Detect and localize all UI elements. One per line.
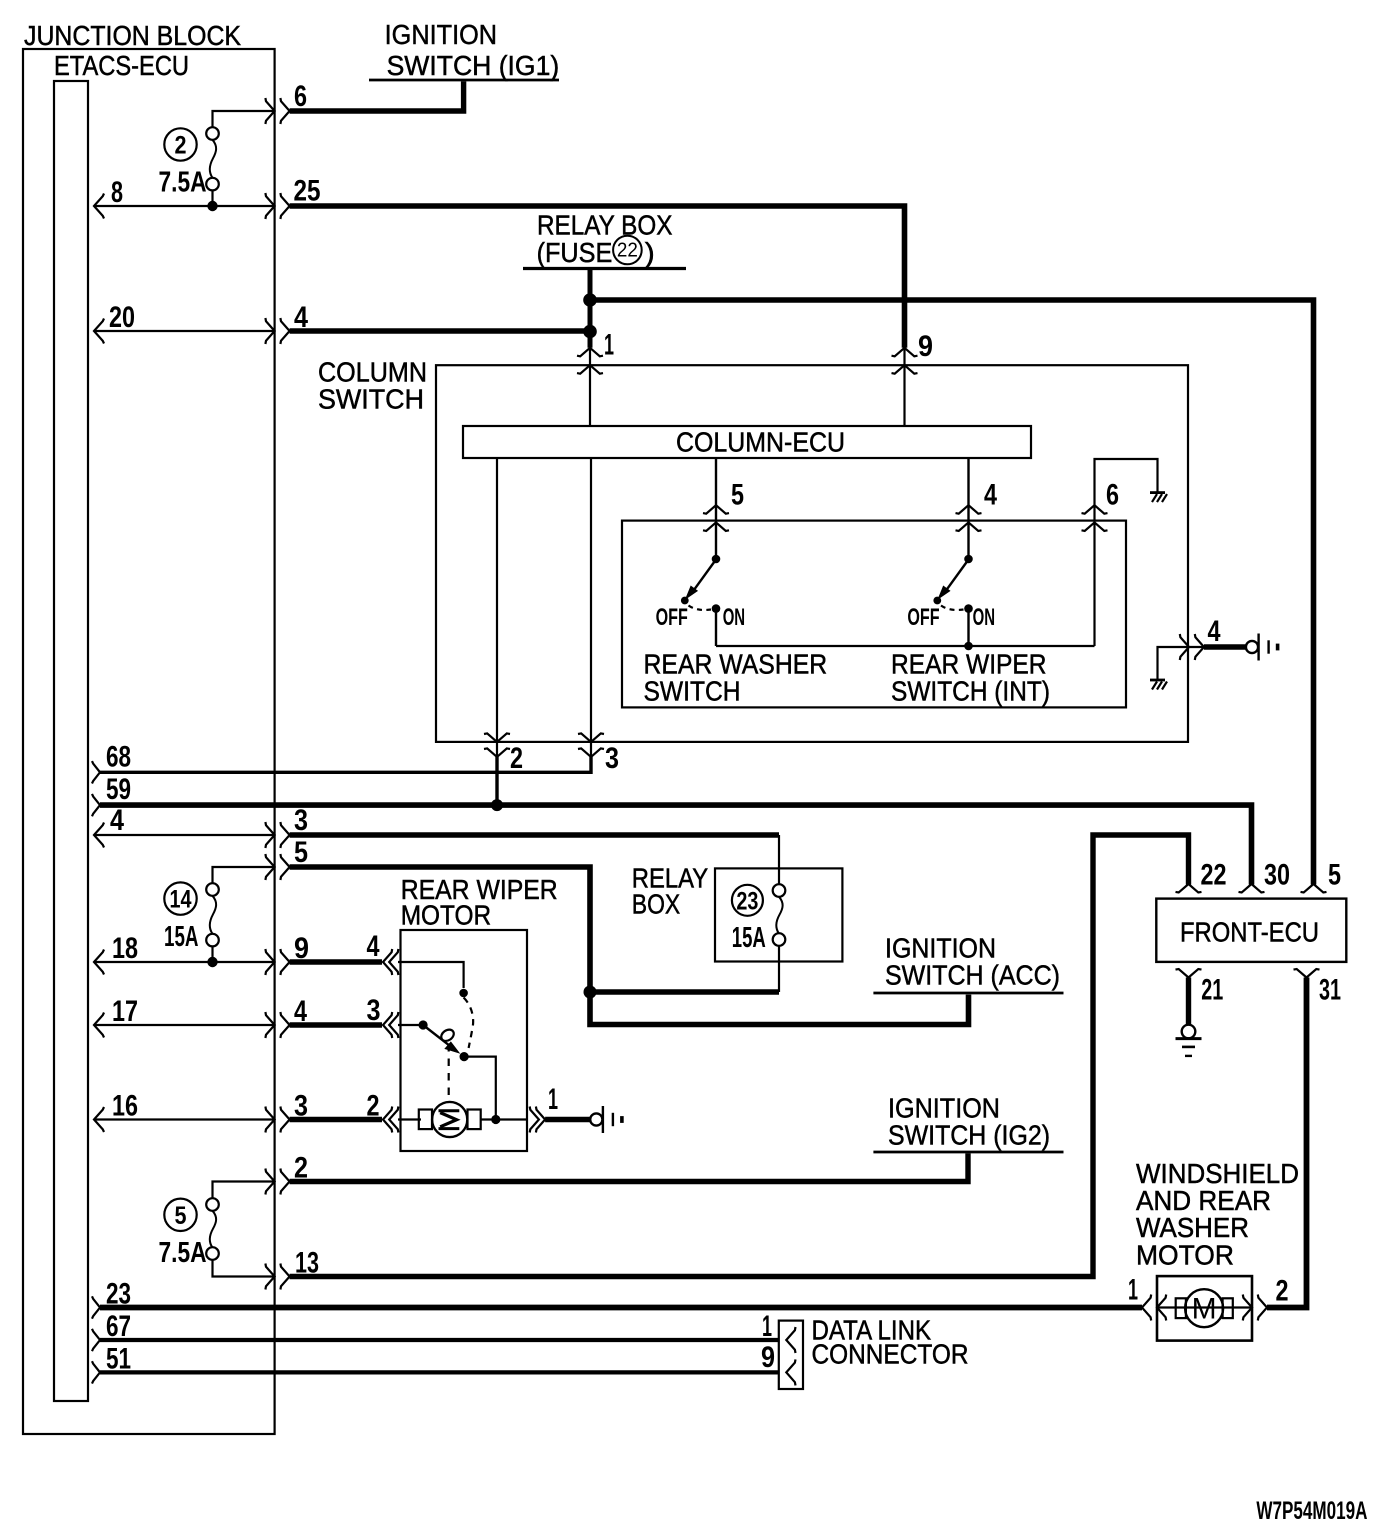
svg-text:SWITCH: SWITCH — [318, 383, 424, 414]
washer motor pin 1 chevrons — [1142, 1295, 1151, 1321]
wire pin 18 to edge — [94, 961, 274, 963]
svg-text:5: 5 — [175, 1202, 187, 1230]
svg-text:W7P54M019A: W7P54M019A — [1256, 1497, 1367, 1525]
junction dot fuse2/wire8 — [207, 201, 217, 211]
front-ecu pin 31 arrow — [1294, 969, 1320, 978]
ETACS-ECU connector strip — [54, 81, 88, 1401]
front-ecu pin 22 arrow — [1176, 884, 1202, 893]
fuse 14 — [164, 882, 196, 914]
svg-text:3: 3 — [294, 804, 308, 837]
switch common rail — [716, 645, 1095, 647]
wire 67 — [100, 1338, 779, 1342]
wire park to motor output — [464, 1057, 496, 1120]
pin 23 arrow — [92, 1296, 100, 1318]
svg-text:(FUSE: (FUSE — [537, 237, 613, 268]
svg-text:MOTOR: MOTOR — [401, 900, 492, 931]
svg-text:23: 23 — [106, 1278, 131, 1311]
wire pin 1 into column-ecu — [589, 348, 591, 426]
svg-text:23: 23 — [736, 887, 758, 915]
park lever — [423, 1025, 453, 1049]
svg-text:IGNITION: IGNITION — [385, 19, 498, 50]
wire 68 — [100, 757, 591, 772]
washer motor armature M — [1176, 1289, 1233, 1327]
wire fuse23 bottom to riser — [590, 989, 779, 994]
wire 4 inline connector chevrons — [1180, 634, 1189, 660]
wire pin 4 to edge — [94, 834, 274, 836]
svg-text:SWITCH (INT): SWITCH (INT) — [891, 675, 1050, 706]
IG2 feed bar — [873, 1151, 1063, 1154]
switch inner box — [622, 521, 1126, 708]
rear washer switch — [681, 555, 720, 646]
svg-text:7.5A: 7.5A — [159, 1237, 207, 1269]
pin 18 arrow — [94, 950, 104, 975]
svg-text:25: 25 — [294, 175, 321, 208]
wire fuse 2 top to pin 6 — [213, 111, 274, 127]
motor pin 4 chevrons — [383, 949, 392, 975]
pin 59 arrow — [92, 794, 100, 816]
junction dot wiper/rail — [964, 642, 973, 651]
svg-text:SWITCH: SWITCH — [644, 675, 741, 706]
svg-text:4: 4 — [294, 995, 307, 1028]
wire pin 21 to earth ground — [1186, 978, 1191, 1026]
svg-text:15A: 15A — [732, 922, 766, 954]
pin 17 arrow — [94, 1013, 104, 1038]
pin 8 arrow — [94, 194, 104, 219]
wire motor to pin 1 — [481, 1118, 527, 1120]
wire 3 to motor pin 2 — [290, 1117, 382, 1122]
svg-text:17: 17 — [112, 995, 138, 1028]
body ground terminal — [1246, 634, 1278, 661]
wire 51 — [100, 1370, 779, 1374]
svg-text:59: 59 — [106, 773, 131, 806]
data link connector box — [779, 1321, 803, 1389]
wire ecu pin 4 down to wiper switch — [967, 458, 969, 559]
data link pin 1 chevron — [786, 1327, 795, 1353]
body ground terminal — [590, 1106, 622, 1133]
motor armature M — [419, 1102, 481, 1137]
wire fuse 2 bottom to wire 8 — [211, 191, 213, 207]
FRONT-ECU box — [1156, 899, 1346, 962]
chassis ground below wire 4 — [1150, 680, 1167, 690]
svg-text:1: 1 — [604, 329, 614, 362]
svg-text:2: 2 — [1276, 1275, 1289, 1308]
wire 25 to column pin 9 — [290, 206, 905, 348]
junction dot pin2/59 — [491, 799, 503, 811]
wire pin 3 to park common — [398, 1024, 423, 1026]
svg-text:9: 9 — [761, 1341, 775, 1374]
wire pin 1 to body ground — [545, 1117, 590, 1122]
svg-text:51: 51 — [106, 1343, 131, 1376]
wire inside washer motor — [1157, 1306, 1252, 1308]
junction dot motor/park — [491, 1115, 500, 1124]
svg-text:68: 68 — [106, 741, 131, 774]
svg-text:): ) — [645, 237, 655, 268]
park contact lower dot — [460, 1052, 469, 1061]
park lever arrowhead — [446, 1043, 458, 1052]
svg-text:ON: ON — [973, 604, 995, 631]
svg-text:3: 3 — [605, 742, 619, 775]
svg-text:7.5A: 7.5A — [159, 167, 207, 199]
svg-text:30: 30 — [1264, 859, 1290, 892]
IG1 feed bar — [369, 79, 559, 82]
junction dot fuse22/right riser — [583, 293, 597, 307]
svg-text:4: 4 — [367, 930, 380, 963]
svg-text:15A: 15A — [164, 921, 199, 953]
wire ecu pin 3 down — [590, 458, 592, 757]
motor pin 1 chevrons — [530, 1107, 539, 1133]
wire pin 8 to edge — [94, 205, 274, 207]
svg-text:9: 9 — [294, 932, 309, 965]
pin 1 connector chevrons — [577, 348, 603, 357]
washer motor pin 2 chevrons — [1243, 1295, 1252, 1321]
wire fuse22 to right riser — [590, 300, 1314, 885]
wire pin 2 to bus 59 — [495, 757, 498, 805]
wire pin 4 to column pin 1 — [290, 328, 590, 333]
svg-text:SWITCH (ACC): SWITCH (ACC) — [885, 959, 1060, 990]
junction dot pin4 wire — [583, 325, 597, 339]
wire pin 4 inside motor — [398, 962, 464, 988]
svg-text:RELAY BOX: RELAY BOX — [537, 210, 673, 241]
junction dot fuse14/wire18 — [207, 957, 217, 967]
fuse 5 — [164, 1199, 196, 1231]
svg-text:16: 16 — [112, 1090, 138, 1123]
svg-text:18: 18 — [112, 932, 138, 965]
svg-text:2: 2 — [367, 1090, 380, 1123]
earth ground — [1176, 1025, 1202, 1056]
fuse 2 — [164, 128, 196, 160]
svg-text:3: 3 — [367, 994, 381, 1027]
svg-text:6: 6 — [1106, 478, 1119, 511]
pin 51 arrow — [92, 1361, 100, 1383]
svg-text:2: 2 — [294, 1152, 308, 1185]
rear wiper switch — [933, 555, 972, 646]
washer motor box — [1157, 1276, 1252, 1341]
wire 59 bus — [100, 805, 1252, 884]
svg-text:2: 2 — [175, 132, 187, 160]
pin 4 chevrons at switch box — [956, 505, 982, 514]
svg-text:6: 6 — [294, 80, 307, 113]
wire ecu pin 5 down to washer switch — [715, 458, 717, 559]
svg-text:3: 3 — [294, 1090, 308, 1123]
junction block outline — [23, 49, 275, 1434]
relay box fuse 23 box — [715, 868, 842, 961]
wire fuse22 down to column pin 1 — [588, 269, 593, 348]
pin 68 arrow — [92, 761, 100, 783]
wire 9 to motor pin 4 — [290, 959, 382, 964]
pin 16 arrow — [94, 1107, 104, 1132]
svg-text:1: 1 — [1128, 1274, 1138, 1307]
wire pin 6 to IG1 — [290, 81, 464, 111]
svg-text:CONNECTOR: CONNECTOR — [812, 1339, 969, 1370]
wire 3 to fuse 23 — [290, 832, 779, 837]
svg-text:FRONT-ECU: FRONT-ECU — [1180, 917, 1319, 948]
svg-text:20: 20 — [109, 301, 135, 334]
svg-text:2: 2 — [510, 742, 523, 775]
svg-text:COLUMN-ECU: COLUMN-ECU — [676, 427, 845, 458]
svg-text:4: 4 — [294, 301, 308, 334]
svg-text:1: 1 — [548, 1083, 558, 1116]
front-ecu pin 5 arrow — [1301, 884, 1327, 893]
wire 13 riser to front-ecu pin 22 — [290, 835, 1189, 1277]
wire pin 2 from IG2 — [290, 1153, 968, 1181]
relay box feed bar — [523, 267, 686, 270]
pin 5 chevrons at switch box — [703, 505, 729, 514]
rear wiper motor box — [401, 930, 528, 1151]
svg-text:9: 9 — [918, 330, 933, 363]
svg-text:22: 22 — [617, 240, 638, 262]
wire 23 — [100, 1305, 1142, 1311]
svg-text:ETACS-ECU: ETACS-ECU — [54, 50, 189, 81]
svg-text:SWITCH (IG2): SWITCH (IG2) — [888, 1119, 1050, 1150]
wire pin 20 to edge — [94, 330, 274, 332]
motor pin 2 chevrons — [383, 1107, 392, 1133]
park lever loop — [439, 1027, 456, 1043]
svg-text:21: 21 — [1201, 973, 1223, 1006]
pin 6 chevrons at switch box — [1082, 505, 1108, 514]
front-ecu pin 21 arrow — [1176, 969, 1202, 978]
svg-text:JUNCTION BLOCK: JUNCTION BLOCK — [24, 20, 241, 51]
park contact upper dot — [459, 989, 468, 998]
data link pin 9 chevron — [786, 1359, 795, 1385]
svg-text:SWITCH (IG1): SWITCH (IG1) — [387, 50, 560, 81]
pin 4 arrow — [94, 823, 104, 848]
ACC feed bar — [873, 992, 1063, 995]
svg-text:4: 4 — [1208, 615, 1221, 648]
COLUMN-ECU box — [463, 426, 1031, 458]
svg-text:OFF: OFF — [907, 604, 939, 631]
svg-text:OFF: OFF — [656, 604, 688, 631]
pin 20 arrow — [94, 319, 104, 344]
front-ecu pin 30 arrow — [1239, 884, 1265, 893]
pin 9 connector chevrons — [892, 348, 918, 357]
chassis ground pin6 — [1150, 493, 1167, 503]
junction block edge connector chevrons — [265, 98, 274, 124]
wire fuse 14 top to pin 5 — [213, 867, 274, 883]
svg-text:4: 4 — [984, 478, 997, 511]
svg-text:MOTOR: MOTOR — [1136, 1239, 1234, 1270]
wire pin 17 to edge — [94, 1024, 274, 1026]
ground wire 4 to body ground — [1158, 647, 1247, 679]
motor pin 3 chevrons — [383, 1012, 392, 1038]
svg-text:8: 8 — [111, 176, 123, 209]
svg-text:4: 4 — [110, 804, 124, 837]
svg-text:14: 14 — [170, 886, 192, 914]
pin 2 chevrons at column box bottom — [484, 733, 510, 742]
svg-text:ON: ON — [723, 604, 745, 631]
svg-text:31: 31 — [1319, 973, 1341, 1006]
wire ecu pin 2 down — [496, 458, 498, 757]
cam dashed arc — [464, 998, 474, 1049]
svg-text:22: 22 — [1201, 859, 1227, 892]
column switch box — [436, 365, 1188, 742]
svg-text:5: 5 — [1328, 859, 1341, 892]
wire pin 31 to washer motor pin 2 — [1267, 978, 1307, 1308]
fuse 23 — [732, 885, 763, 916]
svg-text:5: 5 — [294, 836, 308, 869]
svg-text:67: 67 — [106, 1310, 131, 1343]
mechanical link dashed — [448, 1044, 450, 1102]
svg-text:13: 13 — [295, 1247, 319, 1280]
park common dot — [419, 1020, 428, 1029]
wire pin 9 into column-ecu — [903, 348, 905, 426]
wire 5 riser to ACC — [290, 867, 969, 1025]
svg-text:BOX: BOX — [632, 889, 681, 920]
pin 3 chevrons at column box bottom — [578, 733, 604, 742]
wire fuse 5 bottom to pin 13 — [213, 1260, 274, 1277]
wire fuse 5 top to pin 2 — [213, 1182, 274, 1199]
pin 67 arrow — [92, 1329, 100, 1351]
wire pin 2 to motor — [398, 1118, 421, 1120]
svg-text:5: 5 — [731, 478, 744, 511]
wire pin 16 to edge — [94, 1118, 274, 1120]
wire 4 to motor pin 3 — [290, 1022, 382, 1027]
wire fuse 14 bottom to wire 18 — [211, 947, 213, 963]
svg-text:M: M — [1192, 1293, 1217, 1326]
wire pin 6 to chassis ground — [1095, 459, 1158, 646]
junction dot riser/fuse23 — [584, 986, 597, 999]
svg-text:1: 1 — [762, 1310, 772, 1343]
